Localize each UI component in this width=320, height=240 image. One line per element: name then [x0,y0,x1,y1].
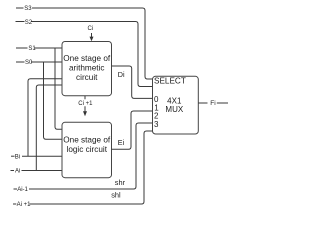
svg-text:Fi: Fi [210,100,215,107]
svg-text:One stage of: One stage of [63,54,111,63]
wire Bi line [11,155,15,157]
svg-text:One stage of: One stage of [63,136,111,145]
wire S0 drop to logic circuit [44,62,63,139]
svg-text:MUX: MUX [165,105,183,114]
svg-text:Ci: Ci [88,26,94,32]
svg-text:shl: shl [111,190,121,199]
wire S2 line [16,21,25,23]
svg-text:Di: Di [118,70,125,79]
wire Ci+1 output arrow [84,106,86,111]
svg-text:SELECT: SELECT [154,76,186,85]
wire Ai-1 shr line [14,188,18,190]
svg-text:S0: S0 [25,60,33,66]
wire S0 line [16,61,25,63]
logic circuit box [62,122,112,177]
wire Ai riser to arithmetic circuit [36,85,62,171]
svg-text:Ci +1: Ci +1 [78,101,93,107]
wire Ai+1 shl line [13,203,16,205]
wire Bi riser to arithmetic circuit [28,79,62,157]
wire Ci input arrow [91,33,93,37]
arithmetic circuit box [62,42,112,96]
wire Ci+1 stub [84,96,86,100]
svg-text:3: 3 [154,120,159,129]
svg-text:Ai-1: Ai-1 [17,187,28,193]
svg-text:shr: shr [115,178,126,187]
wire S1 drop to logic circuit [55,48,62,129]
wire Ai line [11,170,15,172]
svg-text:arithmetic: arithmetic [69,64,105,73]
wire S1 line [16,47,28,49]
svg-text:S2: S2 [25,20,33,26]
svg-text:logic circuit: logic circuit [67,145,108,154]
4x1 MUX box U1 [153,76,199,134]
wire Di to MUX input 0 [112,66,153,98]
svg-text:Ai: Ai [15,169,20,175]
wire Ei to MUX input 1 [112,111,153,149]
wire Fi output [198,102,207,104]
svg-text:Ei: Ei [118,138,125,147]
svg-text:S1: S1 [28,46,36,52]
wire S3 line [16,7,24,9]
svg-text:Bi: Bi [15,154,20,160]
svg-text:Ai +1: Ai +1 [17,202,32,208]
svg-text:circuit: circuit [76,73,98,82]
svg-text:S3: S3 [24,6,32,12]
